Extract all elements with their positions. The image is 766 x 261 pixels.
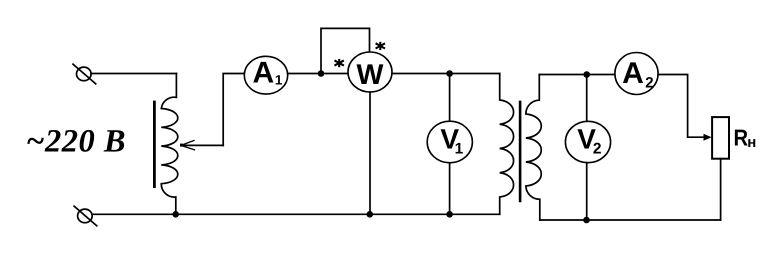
terminal X1 (top input) xyxy=(73,64,96,84)
svg-text:1: 1 xyxy=(455,140,464,157)
svg-text:A: A xyxy=(252,56,274,89)
ammeter A1 xyxy=(244,56,287,94)
transformer T2 secondary winding xyxy=(526,75,541,221)
ammeter A2 xyxy=(615,53,658,95)
wire top terminal to autotransformer top xyxy=(91,73,176,75)
node: W bottom junction xyxy=(367,211,374,218)
wire A2 to load xyxy=(658,75,703,138)
node: autotransformer bottom junction xyxy=(172,211,179,218)
wire tap riser to A1 xyxy=(223,74,244,146)
svg-text:2: 2 xyxy=(593,141,602,158)
node: V1 top junction xyxy=(446,70,453,77)
wire A1 to wattmeter junction xyxy=(288,73,349,75)
voltmeter V1 xyxy=(427,121,472,163)
wattmeter asterisk (voltage side) xyxy=(376,42,385,50)
wattmeter W current-coil loop xyxy=(321,28,370,73)
autotransformer T1 core xyxy=(153,102,156,187)
transformer T2 primary winding xyxy=(500,74,514,215)
svg-text:н: н xyxy=(747,134,756,151)
wire V1 top lead xyxy=(449,74,451,122)
wire secondary bottom rail xyxy=(540,219,721,221)
wire W to transformer primary xyxy=(392,73,500,75)
wire V1 bottom lead xyxy=(449,163,451,215)
wire V2 top lead xyxy=(586,75,588,122)
node: V2 bottom junction xyxy=(583,217,590,224)
node: V2 top junction xyxy=(583,71,590,78)
terminal X2 (bottom input) xyxy=(74,206,97,226)
wire Rn bottom lead xyxy=(720,159,722,220)
wattmeter W xyxy=(348,52,392,92)
svg-text:~220 В: ~220 В xyxy=(26,124,126,160)
node: wattmeter current-coil junction xyxy=(318,70,325,77)
wire W voltage-coil to bottom rail xyxy=(369,92,371,214)
svg-text:A: A xyxy=(622,57,644,90)
svg-text:R: R xyxy=(734,124,749,150)
wire bottom rail (terminal to transformer primary bottom) xyxy=(92,213,500,215)
rheostat arrow head xyxy=(704,134,712,141)
svg-text:1: 1 xyxy=(275,73,283,88)
wattmeter asterisk (line side) xyxy=(335,59,344,67)
rheostat Rn body xyxy=(712,117,729,159)
wire secondary top rail to A2 xyxy=(539,74,615,76)
svg-text:2: 2 xyxy=(645,75,653,92)
svg-text:W: W xyxy=(357,59,384,91)
autotransformer tap arrow xyxy=(180,141,223,150)
autotransformer T1 winding xyxy=(161,74,178,215)
voltmeter V2 xyxy=(565,121,610,162)
node: V1 bottom junction xyxy=(446,211,453,218)
transformer T2 core xyxy=(519,102,522,201)
wire V2 bottom lead xyxy=(586,163,588,220)
